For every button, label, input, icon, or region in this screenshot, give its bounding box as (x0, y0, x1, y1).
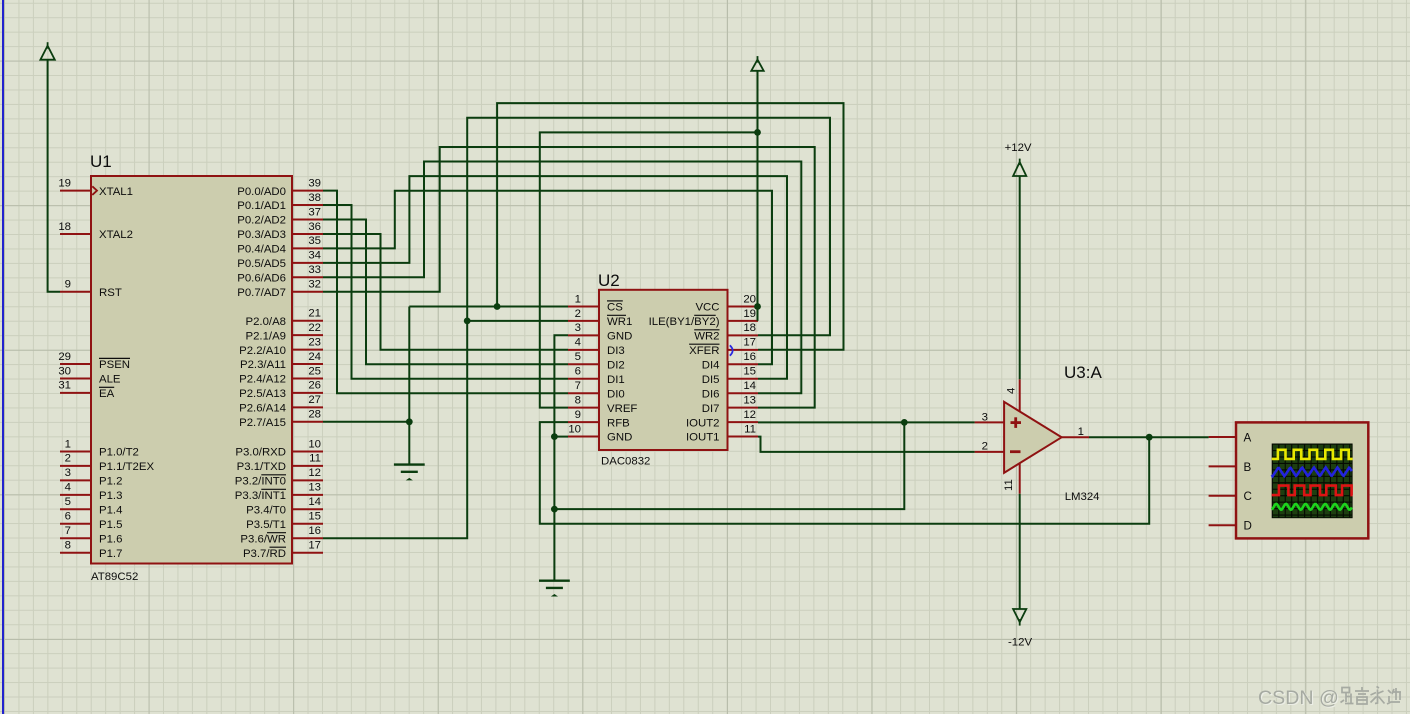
U1 right pin 39 P0.0/AD0 stub (292, 190, 323, 192)
U1 right pin 25 P2.4/A12 stub (292, 378, 323, 380)
wire VREF bus to VCC net (540, 132, 758, 407)
U2 left pin 10 GND stub (568, 436, 599, 438)
svg-text:P3.6/WR: P3.6/WR (240, 534, 286, 546)
svg-text:P2.1/A9: P2.1/A9 (245, 330, 286, 342)
svg-text:13: 13 (308, 482, 321, 494)
svg-text:WR1: WR1 (607, 316, 632, 328)
node junction CS bus tap (494, 303, 501, 310)
U2 left pin 6 DI1 stub (568, 378, 599, 380)
wire op-amp output to oscilloscope A (1089, 436, 1209, 438)
svg-text:P1.1/T2EX: P1.1/T2EX (99, 461, 154, 473)
svg-text:15: 15 (308, 511, 321, 523)
svg-text:2: 2 (982, 440, 988, 452)
scope waveform channel A yellow square wave (1272, 450, 1353, 459)
svg-text:P1.6: P1.6 (99, 534, 122, 546)
svg-text:3: 3 (65, 467, 71, 479)
wire IOUT1 to op-amp inverting input (758, 437, 975, 452)
svg-text:PSEN: PSEN (99, 359, 130, 371)
svg-text:38: 38 (308, 192, 321, 204)
svg-text:VREF: VREF (607, 403, 637, 415)
svg-text:2: 2 (575, 308, 581, 320)
U1 right pin 32 P0.7/AD7 stub (292, 291, 323, 293)
svg-text:4: 4 (1006, 388, 1018, 394)
svg-text:XTAL2: XTAL2 (99, 229, 133, 241)
svg-text:18: 18 (58, 221, 71, 233)
svg-text:DI3: DI3 (607, 345, 625, 357)
U2 right pin 13 DI7 stub (728, 407, 759, 409)
svg-text:P3.0/RXD: P3.0/RXD (235, 447, 286, 459)
svg-text:17: 17 (308, 540, 321, 552)
svg-text:10: 10 (568, 423, 581, 435)
svg-text:32: 32 (308, 279, 321, 291)
svg-text:A: A (1244, 431, 1252, 444)
svg-text:30: 30 (58, 365, 71, 377)
U1 left pin 19 XTAL1 stub (60, 190, 91, 192)
svg-text:P1.3: P1.3 (99, 490, 122, 502)
svg-text:36: 36 (308, 221, 321, 233)
svg-text:CSDN @: CSDN @ (1258, 687, 1339, 709)
wire U2 GND pin 3 down to ground (554, 335, 568, 580)
U2 right pin 17 XFER stub (728, 349, 759, 351)
U1 left pin 2 P1.1/T2EX stub (60, 465, 91, 467)
svg-text:P3.5/T1: P3.5/T1 (246, 519, 286, 531)
wire WR top bus from P3.6 to WR2 (323, 118, 830, 539)
svg-text:6: 6 (65, 511, 71, 523)
wire IOUT2 to op-amp noninverting input (758, 421, 975, 423)
svg-text:12: 12 (743, 409, 756, 421)
U1 left pin 18 XTAL2 stub (60, 233, 91, 235)
svg-text:24: 24 (308, 351, 321, 363)
svg-text:P2.6/A14: P2.6/A14 (239, 403, 286, 415)
svg-text:19: 19 (743, 308, 756, 320)
svg-text:28: 28 (308, 409, 321, 421)
oscilloscope pin D stub (1209, 524, 1236, 526)
U1 left pin 30 ALE stub (60, 378, 91, 380)
U1 left pin 9 RST stub (60, 291, 91, 293)
svg-text:P2.3/A11: P2.3/A11 (240, 359, 286, 371)
svg-text:14: 14 (308, 496, 321, 508)
svg-text:5: 5 (65, 496, 71, 508)
wire U2 GND pin 10 link (554, 436, 568, 438)
svg-text:25: 25 (308, 365, 321, 377)
node junction at P2.7 ground (406, 418, 413, 425)
wire P0.3/AD3 to U2 DI3 (323, 234, 568, 350)
wire RST to power arrow (48, 60, 60, 292)
U1 right pin 13 P3.3/INT1 stub (292, 494, 323, 496)
svg-text:1: 1 (575, 293, 581, 305)
U1 right pin 33 P0.6/AD6 stub (292, 276, 323, 278)
svg-text:WR2: WR2 (694, 331, 719, 343)
wire CS horizontal into U2 pin 1 (409, 306, 568, 308)
svg-text:U2: U2 (598, 271, 620, 290)
IC U1 AT89C52 body (91, 176, 292, 564)
svg-text:DI6: DI6 (702, 388, 720, 400)
ground symbol below U2 GND net (539, 580, 570, 582)
svg-text:GND: GND (607, 331, 632, 343)
svg-text:P0.7/AD7: P0.7/AD7 (237, 287, 286, 299)
svg-text:9: 9 (575, 409, 581, 421)
U2 left pin 4 DI3 stub (568, 349, 599, 351)
svg-text:3: 3 (575, 322, 581, 334)
U1 right pin 37 P0.2/AD2 stub (292, 219, 323, 221)
oscilloscope pin B stub (1209, 465, 1236, 467)
svg-text:16: 16 (743, 351, 756, 363)
U1 left pin 29 PSEN stub (60, 363, 91, 365)
svg-text:1: 1 (65, 438, 71, 450)
svg-text:39: 39 (308, 177, 321, 189)
svg-text:DI7: DI7 (702, 403, 720, 415)
oscilloscope pin C stub (1209, 495, 1236, 497)
U1 right pin 16 P3.6/WR stub (292, 537, 323, 539)
svg-text:RST: RST (99, 287, 122, 299)
svg-text:AT89C52: AT89C52 (91, 571, 138, 583)
svg-text:6: 6 (575, 366, 581, 378)
op-amp U3:A minus input symbol (1010, 450, 1021, 453)
U1 right pin 17 P3.7/RD stub (292, 552, 323, 554)
svg-text:14: 14 (743, 380, 756, 392)
svg-text:9: 9 (65, 279, 71, 291)
svg-text:16: 16 (308, 525, 321, 537)
scope waveform channel D green sine wave (1272, 504, 1352, 510)
svg-text:P1.5: P1.5 (99, 519, 122, 531)
U1 right pin 12 P3.2/INT0 stub (292, 479, 323, 481)
U1 right pin 14 P3.4/T0 stub (292, 508, 323, 510)
svg-text:IOUT1: IOUT1 (686, 432, 720, 444)
svg-text:C: C (1244, 490, 1252, 503)
svg-text:P0.3/AD3: P0.3/AD3 (237, 229, 286, 241)
svg-text:18: 18 (743, 322, 756, 334)
svg-text:3: 3 (982, 412, 988, 424)
op-amp U3:A pin 2 stub (975, 451, 1005, 453)
svg-text:DI2: DI2 (607, 360, 625, 372)
svg-text:ILE(BY1/BY2): ILE(BY1/BY2) (649, 316, 720, 328)
U2 left pin 8 VREF stub (568, 407, 599, 409)
oscilloscope body (1236, 422, 1368, 538)
svg-text:P2.2/A10: P2.2/A10 (239, 345, 286, 357)
svg-text:ALE: ALE (99, 374, 121, 386)
svg-text:+12V: +12V (1005, 142, 1032, 154)
U2 right pin 18 WR2 stub (728, 334, 759, 336)
U2 left pin 7 DI0 stub (568, 392, 599, 394)
svg-text:20: 20 (743, 293, 756, 305)
svg-text:U1: U1 (90, 152, 112, 171)
wire VCC vertical from power arrow to U2 pin 20 (757, 71, 759, 307)
power symbol -12V arrow below op-amp (1013, 609, 1026, 622)
wire P0.0/AD0 to U2 DI0 (323, 191, 568, 394)
oscilloscope screen grid cells (1273, 445, 1352, 517)
op-amp U3:A triangle body (1004, 402, 1062, 473)
svg-text:B: B (1244, 461, 1252, 474)
U2 right pin 11 IOUT1 stub (728, 436, 759, 438)
U1 left pin 3 P1.2 stub (60, 479, 91, 481)
op-amp U3:A output pin 1 stub (1062, 436, 1089, 438)
svg-text:P1.7: P1.7 (99, 548, 122, 560)
oscilloscope pin A stub (1209, 436, 1236, 438)
oscilloscope screen background (1272, 444, 1353, 519)
U2 left pin 5 DI2 stub (568, 363, 599, 365)
svg-text:GND: GND (607, 432, 632, 444)
IC U2 DAC0832 body (599, 290, 728, 450)
svg-text:P3.4/T0: P3.4/T0 (246, 505, 286, 517)
U2 right pin 15 DI5 stub (728, 378, 759, 380)
U2 left pin 9 RFB stub (568, 421, 599, 423)
U1 right pin 26 P2.5/A13 stub (292, 392, 323, 394)
U1 right pin 11 P3.1/TXD stub (292, 465, 323, 467)
svg-text:DI4: DI4 (702, 360, 720, 372)
U1 XTAL1 clock input marker (92, 186, 97, 195)
svg-text:P3.7/RD: P3.7/RD (243, 548, 286, 560)
svg-text:P0.0/AD0: P0.0/AD0 (237, 186, 286, 198)
svg-text:1: 1 (1078, 426, 1084, 438)
node junction op-amp output feedback tap (1146, 434, 1153, 441)
svg-text:26: 26 (308, 380, 321, 392)
wire ILE link to VCC pin (757, 307, 759, 321)
svg-text:29: 29 (58, 351, 71, 363)
U2 right pin 12 IOUT2 stub (728, 421, 759, 423)
svg-text:11: 11 (309, 453, 321, 465)
svg-text:33: 33 (308, 264, 321, 276)
U1 right pin 22 P2.1/A9 stub (292, 334, 323, 336)
power symbol (VCC arrow) above U2 pin 20 (751, 60, 763, 71)
svg-text:-12V: -12V (1008, 636, 1032, 648)
svg-text:10: 10 (308, 438, 321, 450)
svg-text:DAC0832: DAC0832 (601, 456, 650, 468)
power symbol (VCC arrow) at RST net top-left (40, 46, 54, 60)
svg-text:D: D (1244, 520, 1252, 533)
svg-text:22: 22 (308, 322, 321, 334)
op-amp U3:A pin 3 stub (975, 421, 1005, 423)
U1 right pin 38 P0.1/AD1 stub (292, 204, 323, 206)
svg-text:P0.5/AD5: P0.5/AD5 (237, 258, 286, 270)
U1 right pin 27 P2.6/A14 stub (292, 406, 323, 408)
svg-text:11: 11 (1003, 479, 1015, 491)
svg-text:P1.2: P1.2 (99, 476, 122, 488)
svg-text:27: 27 (308, 394, 321, 406)
wire P0.2/AD2 to U2 DI2 (323, 220, 568, 365)
svg-text:5: 5 (575, 351, 581, 363)
U1 right pin 24 P2.3/A11 stub (292, 363, 323, 365)
svg-text:DI1: DI1 (607, 374, 625, 386)
svg-text:11: 11 (744, 423, 756, 435)
scope waveform channel C red square wave (1272, 486, 1353, 496)
wire feedback from output to RFB (540, 422, 1149, 524)
scope waveform channel B blue triangle wave (1272, 467, 1352, 476)
svg-text:EA: EA (99, 388, 115, 400)
svg-text:P0.4/AD4: P0.4/AD4 (237, 244, 286, 256)
U2 right pin 16 DI4 stub (728, 363, 759, 365)
op-amp U3:A plus input symbol (1011, 421, 1022, 424)
U1 left pin 31 EA stub (60, 392, 91, 394)
svg-text:P0.6/AD6: P0.6/AD6 (237, 273, 286, 285)
svg-text:31: 31 (58, 380, 71, 392)
svg-text:DI5: DI5 (702, 374, 720, 386)
svg-text:U3:A: U3:A (1064, 363, 1102, 382)
svg-text:P2.5/A13: P2.5/A13 (239, 388, 286, 400)
svg-text:7: 7 (65, 525, 71, 537)
svg-text:P1.0/T2: P1.0/T2 (99, 447, 139, 459)
svg-text:RFB: RFB (607, 417, 630, 429)
wire P0.6/AD6 over top bus to U2 DI6 (323, 162, 801, 394)
svg-text:37: 37 (308, 206, 321, 218)
U1 left pin 6 P1.5 stub (60, 523, 91, 525)
svg-text:P2.0/A8: P2.0/A8 (245, 316, 286, 328)
svg-text:P0.1/AD1: P0.1/AD1 (237, 200, 286, 212)
wire ground to IOUT2 node (554, 422, 904, 509)
U2 right pin 19 ILE(BY1/BY2) stub (728, 320, 759, 322)
svg-text:P1.4: P1.4 (99, 505, 122, 517)
svg-text:P2.7/A15: P2.7/A15 (239, 417, 286, 429)
node junction WR1 (464, 318, 471, 325)
op-amp U3:A pin 11 stub (1019, 462, 1021, 494)
wire P0.1/AD1 to U2 DI1 (323, 205, 568, 379)
svg-text:21: 21 (308, 308, 321, 320)
U1 left pin 1 P1.0/T2 stub (60, 451, 91, 453)
U1 left pin 5 P1.4 stub (60, 508, 91, 510)
wire P2.7/A15 to ground node (323, 422, 409, 465)
node junction U2 VCC pin (754, 303, 761, 310)
power symbol +12V arrow above op-amp (1013, 162, 1026, 176)
sheet border line (2, 0, 4, 714)
U1 right pin 10 P3.0/RXD stub (292, 451, 323, 453)
svg-text:LM324: LM324 (1065, 491, 1100, 503)
wire P0.7/AD7 over top bus to U2 DI7 (323, 147, 815, 408)
svg-text:P0.2/AD2: P0.2/AD2 (237, 215, 286, 227)
U1 right pin 15 P3.5/T1 stub (292, 523, 323, 525)
U1 right pin 34 P0.5/AD5 stub (292, 262, 323, 264)
node junction GND pin 10 (551, 433, 558, 440)
svg-text:35: 35 (308, 235, 321, 247)
svg-text:XFER: XFER (689, 345, 719, 357)
U2 left pin 2 WR1 stub (568, 320, 599, 322)
svg-text:34: 34 (308, 250, 321, 262)
svg-text:P2.4/A12: P2.4/A12 (239, 374, 286, 386)
svg-text:19: 19 (58, 177, 71, 189)
svg-text:8: 8 (65, 540, 71, 552)
wire CS down to P2.7 node (408, 307, 410, 422)
svg-text:2: 2 (65, 453, 71, 465)
voltage probe marker at U2 pin 17 XFER (730, 345, 733, 355)
svg-text:DI0: DI0 (607, 388, 625, 400)
U2 right pin 14 DI6 stub (728, 392, 759, 394)
op-amp U3:A pin 4 stub (1019, 379, 1021, 412)
wire WR1 into U2 pin 2 (467, 320, 568, 322)
svg-text:CS: CS (607, 302, 623, 314)
svg-text:P3.1/TXD: P3.1/TXD (237, 461, 286, 473)
svg-text:17: 17 (743, 337, 756, 349)
node junction IOUT2 ground tap (901, 419, 908, 426)
U1 right pin 36 P0.3/AD3 stub (292, 233, 323, 235)
wire +12V to op-amp pin 4 (1019, 176, 1021, 379)
svg-text:4: 4 (65, 482, 71, 494)
U1 right pin 21 P2.0/A8 stub (292, 320, 323, 322)
svg-text:15: 15 (743, 366, 756, 378)
svg-text:8: 8 (575, 394, 581, 406)
svg-text:13: 13 (743, 394, 756, 406)
svg-text:P3.3/INT1: P3.3/INT1 (235, 490, 286, 502)
svg-text:12: 12 (308, 467, 321, 479)
wire P0.4/AD4 over top bus to U2 DI4 (323, 191, 772, 365)
svg-text:23: 23 (308, 336, 321, 348)
U1 left pin 4 P1.3 stub (60, 494, 91, 496)
U1 left pin 8 P1.7 stub (60, 552, 91, 554)
U1 left pin 7 P1.6 stub (60, 537, 91, 539)
U2 left pin 1 CS stub (568, 306, 599, 308)
wire CS-XFER top bus (497, 103, 843, 350)
svg-text:IOUT2: IOUT2 (686, 417, 720, 429)
ground symbol below P2.7 node (394, 463, 425, 465)
svg-text:4: 4 (575, 337, 581, 349)
node junction VCC-VREF bus tap (754, 129, 761, 136)
U1 right pin 35 P0.4/AD4 stub (292, 247, 323, 249)
wire P0.5/AD5 over top bus to U2 DI5 (323, 176, 787, 379)
node junction ground link (551, 506, 558, 513)
svg-text:P3.2/INT0: P3.2/INT0 (235, 476, 286, 488)
svg-text:7: 7 (575, 380, 581, 392)
wire op-amp pin 11 to -12V (1019, 494, 1021, 609)
U2 right pin 20 VCC stub (728, 306, 759, 308)
svg-text:VCC: VCC (695, 302, 719, 314)
U2 left pin 3 GND stub (568, 334, 599, 336)
U1 right pin 28 P2.7/A15 stub (292, 421, 323, 423)
svg-text:XTAL1: XTAL1 (99, 186, 133, 198)
U1 right pin 23 P2.2/A10 stub (292, 349, 323, 351)
